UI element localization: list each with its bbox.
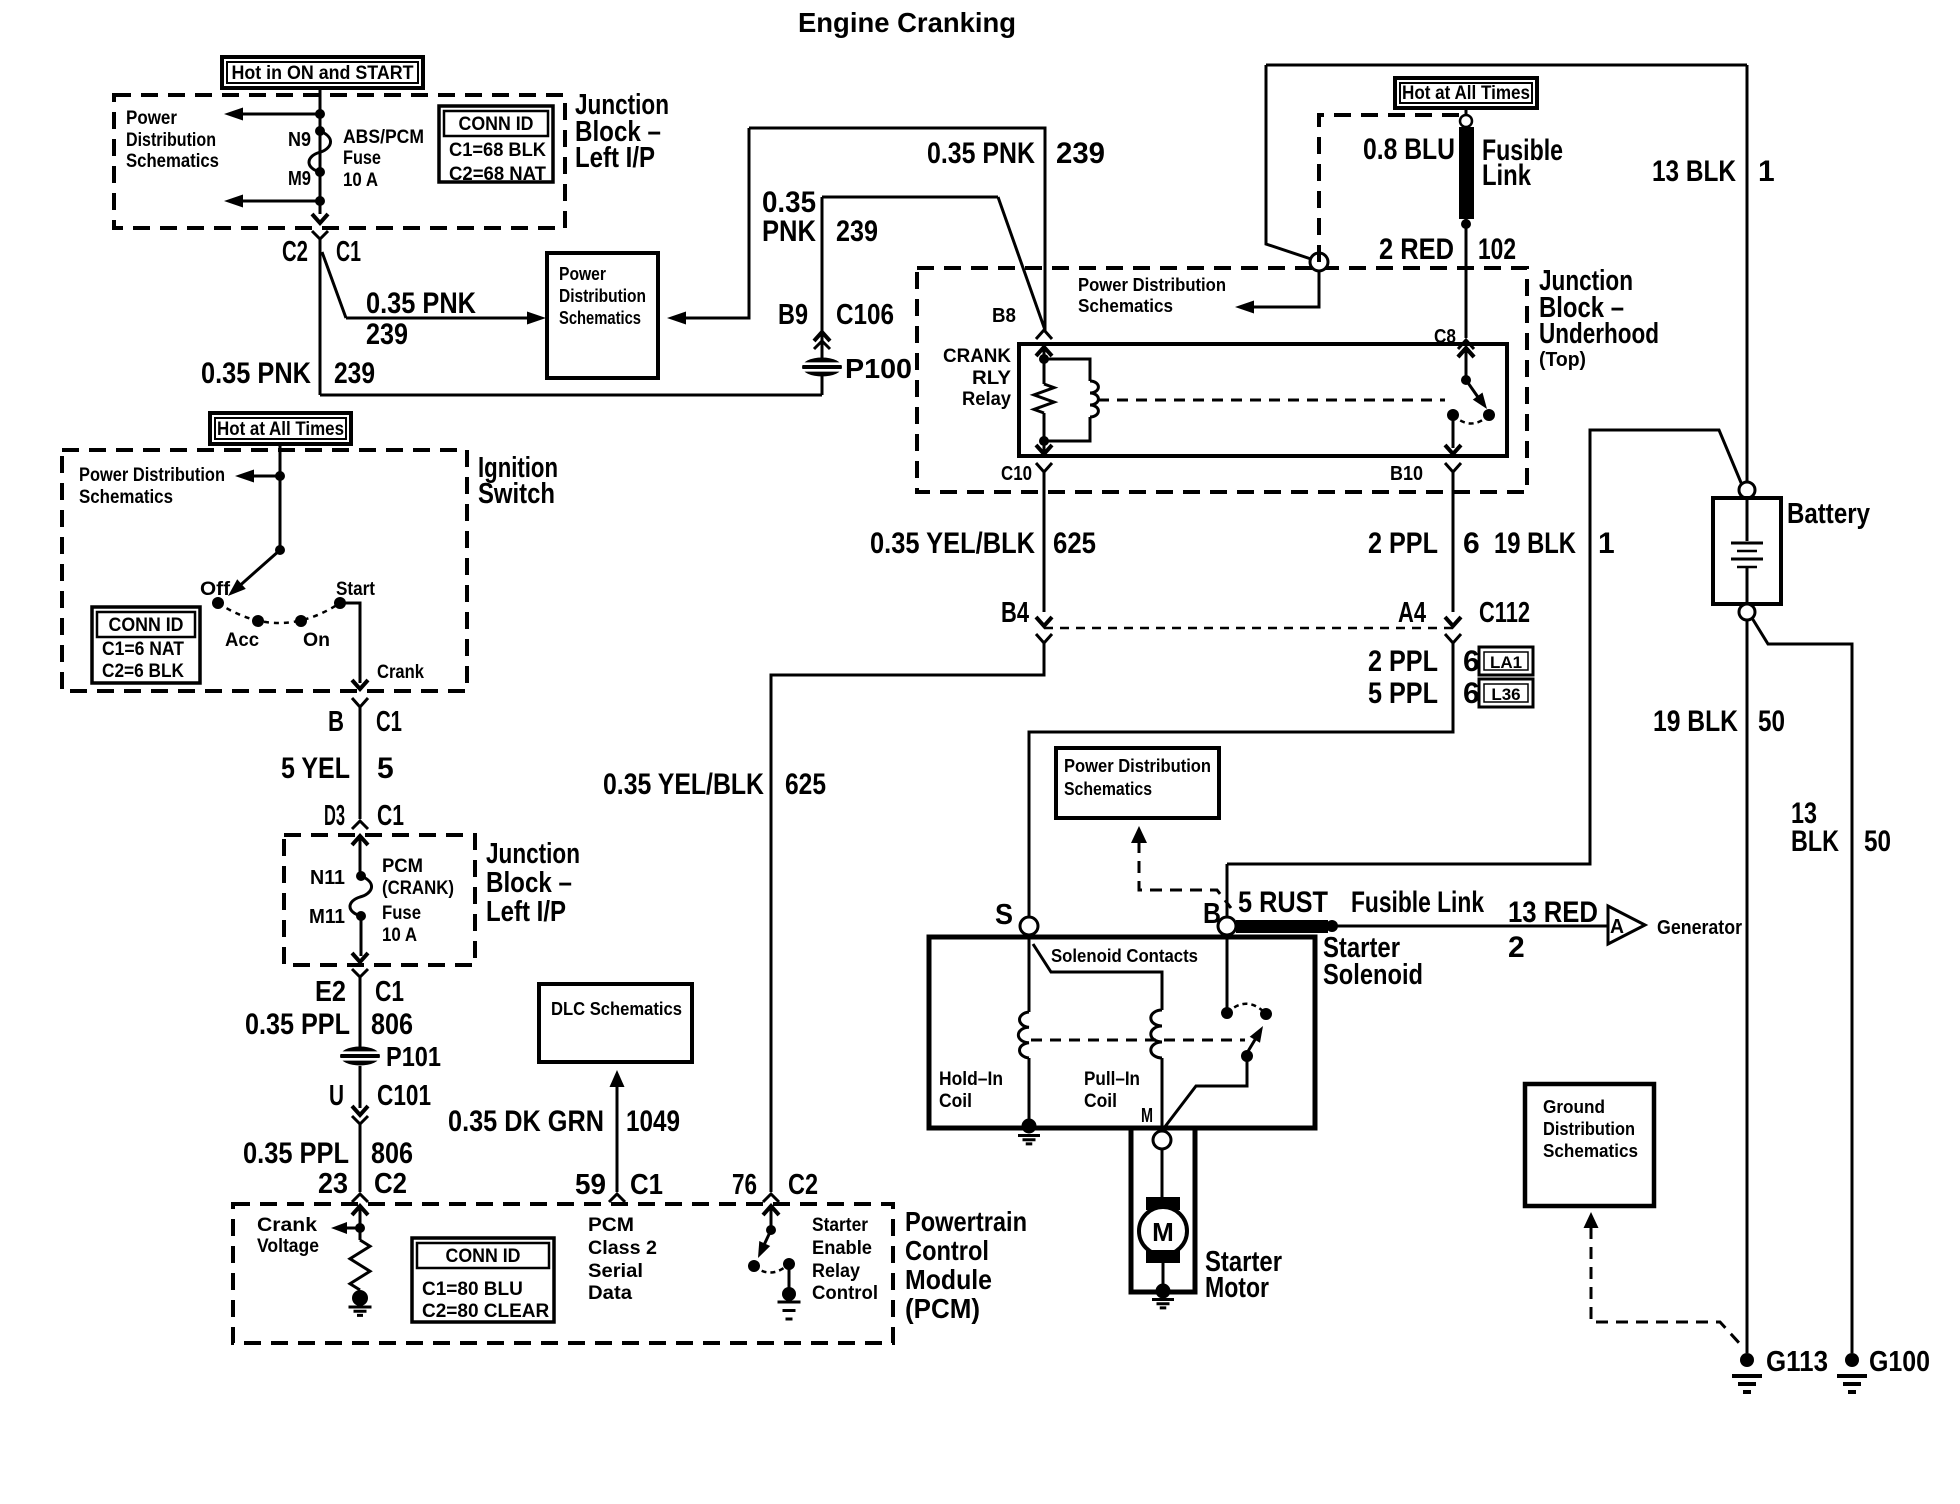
ground below solenoid (hold-in) bbox=[1018, 1136, 1040, 1144]
node fusible link bottom dot bbox=[1461, 219, 1471, 229]
fusible link 5 RUST bbox=[1236, 920, 1328, 933]
battery cell symbol bbox=[1731, 498, 1763, 604]
svg-text:Enable: Enable bbox=[812, 1238, 872, 1259]
wire B10 to A4 bbox=[1452, 472, 1455, 612]
contact dot On bbox=[295, 615, 307, 627]
svg-text:Class 2: Class 2 bbox=[588, 1238, 657, 1259]
svg-text:Starter: Starter bbox=[812, 1215, 869, 1236]
svg-text:625: 625 bbox=[785, 768, 826, 801]
junction block left I/P lower dashed box bbox=[284, 835, 475, 965]
ignition switch dashed box bbox=[62, 450, 467, 691]
wire diagonal into B8 bbox=[998, 197, 1045, 330]
wire 5 YEL 5 bbox=[359, 707, 362, 819]
svg-text:Distribution: Distribution bbox=[1543, 1118, 1635, 1139]
svg-text:C112: C112 bbox=[1479, 597, 1530, 629]
label Junction Block - Left I/P bbox=[575, 89, 669, 174]
svg-text:C2: C2 bbox=[788, 1169, 818, 1201]
dashed wire G113 to GDS bbox=[1591, 1227, 1741, 1345]
svg-text:19 BLK: 19 BLK bbox=[1494, 527, 1576, 560]
svg-text:59: 59 bbox=[575, 1169, 606, 1201]
arrowhead wire exits block bbox=[312, 214, 328, 223]
label Powertrain Control Module (PCM) bbox=[905, 1206, 1027, 1324]
svg-text:Crank: Crank bbox=[377, 662, 424, 683]
wire 13 RED 2 to generator bbox=[1337, 925, 1608, 928]
text Power Distribution Schematics (left IP) bbox=[126, 108, 219, 172]
label CRANK RLY Relay bbox=[943, 346, 1011, 410]
svg-text:P100: P100 bbox=[845, 353, 912, 384]
contact dot Start bbox=[334, 597, 346, 609]
svg-text:C1=68 BLK: C1=68 BLK bbox=[449, 140, 546, 161]
svg-text:1: 1 bbox=[1758, 155, 1775, 188]
relay box CRANK RLY bbox=[1019, 344, 1507, 456]
node PCM switch top dot bbox=[766, 1225, 776, 1235]
svg-text:10 A: 10 A bbox=[343, 170, 378, 191]
svg-text:13 RED: 13 RED bbox=[1508, 896, 1598, 929]
resistor relay internal bbox=[1034, 384, 1054, 413]
ignition wiper blade bbox=[228, 550, 280, 596]
svg-text:C10: C10 bbox=[1001, 463, 1032, 485]
wire motor to ground bbox=[1162, 1263, 1165, 1290]
svg-text:239: 239 bbox=[334, 357, 375, 390]
connector 23/C2 chevron bbox=[352, 1194, 368, 1202]
label 0.35 PPL 806 (upper) bbox=[245, 1008, 413, 1041]
wire branch left upper bbox=[242, 113, 320, 116]
svg-text:Relay: Relay bbox=[812, 1261, 860, 1282]
arrow to power distribution upper bbox=[224, 108, 243, 121]
svg-text:Schematics: Schematics bbox=[126, 151, 219, 172]
power tag Hot in ON and START bbox=[222, 57, 423, 88]
svg-text:Distribution: Distribution bbox=[126, 130, 216, 151]
wire battery neg to G113 bbox=[1746, 620, 1749, 1353]
conn id table C1=6 NAT C2=6 BLK bbox=[92, 607, 200, 683]
svg-text:2 PPL: 2 PPL bbox=[1368, 645, 1438, 678]
label Ignition Switch bbox=[478, 452, 558, 510]
dashed link relay actuation bbox=[1098, 399, 1445, 402]
svg-text:Control: Control bbox=[905, 1235, 989, 1266]
wire grommet to C101 bbox=[359, 1066, 362, 1108]
connector label 76 C2 bbox=[732, 1169, 818, 1201]
svg-text:B: B bbox=[1203, 898, 1221, 930]
svg-text:PCM: PCM bbox=[382, 856, 423, 877]
box Power Distribution Schematics #1 bbox=[547, 253, 658, 378]
svg-text:Schematics: Schematics bbox=[1078, 295, 1173, 316]
node relay coil top dot bbox=[1039, 354, 1049, 364]
text Power Distribution Schematics (underhood) bbox=[1078, 274, 1226, 316]
solenoid switch blade bbox=[1247, 1026, 1263, 1053]
node solenoid blade pivot dot bbox=[1241, 1050, 1253, 1062]
relay switch blade bbox=[1466, 380, 1487, 409]
svg-text:Underhood: Underhood bbox=[1539, 318, 1659, 350]
svg-text:10 A: 10 A bbox=[382, 925, 417, 946]
svg-text:ABS/PCM: ABS/PCM bbox=[343, 127, 424, 148]
svg-text:Data: Data bbox=[588, 1283, 632, 1304]
svg-text:DLC Schematics: DLC Schematics bbox=[551, 999, 682, 1019]
svg-text:C1=80 BLU: C1=80 BLU bbox=[422, 1279, 523, 1300]
svg-text:0.35 PNK: 0.35 PNK bbox=[201, 357, 311, 390]
arrowhead 76 enters PCM bbox=[763, 1206, 779, 1215]
ground below motor bbox=[1152, 1300, 1174, 1308]
connector C2/C1 chevron bbox=[312, 231, 328, 239]
svg-text:Crank: Crank bbox=[257, 1215, 317, 1236]
wire branch crank voltage bbox=[338, 1227, 360, 1230]
svg-text:Powertrain: Powertrain bbox=[905, 1206, 1027, 1237]
wire 13 BLK 1 down to battery bbox=[1746, 65, 1749, 482]
wire A4 to S terminal bbox=[1029, 643, 1453, 917]
connector B4 chevron bbox=[1036, 634, 1052, 643]
svg-text:625: 625 bbox=[1053, 527, 1096, 560]
conn id table C1=80 BLU C2=80 CLEAR bbox=[412, 1238, 554, 1322]
fuse F PCM (CRANK) 10A bbox=[350, 876, 372, 916]
motor M1 starter bbox=[1139, 1197, 1187, 1263]
terminal S ring bbox=[1020, 917, 1038, 935]
connector label 23 C2 bbox=[318, 1168, 407, 1200]
label 0.35 DK GRN 1049 bbox=[448, 1105, 680, 1138]
label 0.35 YEL/BLK 625 (lower) bbox=[603, 768, 826, 801]
connector label D3 C1 bbox=[324, 800, 404, 832]
coil Pull-In bbox=[1151, 1010, 1162, 1058]
svg-text:Hot at All Times: Hot at All Times bbox=[1402, 83, 1530, 104]
svg-text:P101: P101 bbox=[386, 1041, 441, 1072]
node PCM ground dot 2 bbox=[782, 1287, 796, 1301]
offsheet triangle A generator bbox=[1608, 906, 1645, 944]
svg-text:Power Distribution: Power Distribution bbox=[1078, 274, 1226, 295]
wire fuse out bbox=[360, 916, 363, 956]
dashed arc ignition positions bbox=[218, 603, 340, 623]
svg-text:6: 6 bbox=[1463, 645, 1480, 678]
svg-text:Coil: Coil bbox=[1084, 1091, 1117, 1112]
svg-text:LA1: LA1 bbox=[1490, 653, 1522, 672]
relay switch common C8 bbox=[1458, 348, 1474, 385]
label Starter Solenoid bbox=[1323, 932, 1423, 991]
arrowhead relay coil to C10 bbox=[1036, 445, 1052, 454]
node PCM contact left dot bbox=[748, 1260, 760, 1272]
svg-text:Engine Cranking: Engine Cranking bbox=[798, 7, 1016, 38]
svg-text:Fusible Link: Fusible Link bbox=[1351, 886, 1484, 919]
wire tag to fusible link bbox=[1465, 108, 1468, 116]
conn id table C1=68 BLK C2=68 NAT bbox=[439, 106, 553, 185]
wire feed from top right bbox=[1266, 65, 1311, 259]
wire bottom run y395 bbox=[320, 394, 822, 397]
svg-text:1049: 1049 bbox=[626, 1105, 680, 1138]
svg-text:Schematics: Schematics bbox=[1064, 778, 1152, 799]
svg-text:On: On bbox=[303, 630, 330, 651]
relay contact dots bbox=[1447, 409, 1495, 421]
svg-text:C1: C1 bbox=[630, 1169, 663, 1201]
text Crank Voltage bbox=[257, 1215, 319, 1257]
wire C10 to B4 bbox=[1043, 472, 1046, 612]
wire diagonal branch from C1 bbox=[322, 252, 346, 318]
svg-text:Distribution: Distribution bbox=[559, 285, 646, 306]
svg-text:C101: C101 bbox=[377, 1080, 431, 1112]
svg-text:RLY: RLY bbox=[972, 368, 1011, 389]
svg-text:C1: C1 bbox=[376, 706, 402, 738]
arrow crank voltage bbox=[331, 1222, 347, 1234]
svg-text:G100: G100 bbox=[1869, 1346, 1930, 1378]
arrowhead crank exits switch bbox=[352, 680, 368, 689]
connector label U C101 bbox=[329, 1080, 431, 1112]
connector label E2 C1 bbox=[315, 976, 404, 1008]
svg-text:Control: Control bbox=[812, 1283, 878, 1304]
svg-text:Voltage: Voltage bbox=[257, 1236, 319, 1257]
svg-text:102: 102 bbox=[1478, 233, 1516, 266]
svg-text:Pull–In: Pull–In bbox=[1084, 1069, 1140, 1090]
svg-text:239: 239 bbox=[836, 215, 878, 248]
text Power Distribution Schematics (ignition) bbox=[79, 465, 225, 508]
arrow to PDS text bbox=[1235, 301, 1254, 314]
node crank voltage dot bbox=[355, 1223, 365, 1233]
wire relay res bottom bbox=[1043, 413, 1046, 452]
svg-text:Block –: Block – bbox=[486, 867, 572, 899]
node ignition feed dot bbox=[275, 471, 285, 481]
node PCM ground dot 1 bbox=[352, 1290, 368, 1306]
arrowhead exits fuse block bbox=[352, 953, 368, 962]
terminal B ring bbox=[1218, 917, 1236, 935]
svg-text:Left I/P: Left I/P bbox=[575, 142, 655, 174]
label Hold-In Coil bbox=[939, 1069, 1003, 1112]
connector label A4 C112 bbox=[1398, 597, 1530, 629]
node solenoid contact right dot bbox=[1260, 1008, 1272, 1020]
arrow into DLC box bbox=[610, 1070, 625, 1087]
node junction dot top bbox=[315, 109, 325, 119]
fuse F ABS/PCM 10A bbox=[309, 131, 331, 172]
text PCM (CRANK) Fuse 10 A bbox=[382, 856, 454, 946]
wire branch to PDS bbox=[243, 475, 280, 478]
text PCM Class 2 Serial Data bbox=[588, 1215, 657, 1304]
wire M to motor bbox=[1161, 1149, 1164, 1199]
node wiper pivot dot bbox=[275, 545, 285, 555]
wire B4 to PCM 76 bbox=[771, 643, 1044, 1192]
svg-text:G113: G113 bbox=[1766, 1346, 1828, 1378]
svg-text:5 RUST: 5 RUST bbox=[1238, 886, 1328, 919]
box Power Distribution Schematics #3 bbox=[1056, 748, 1219, 818]
svg-text:Acc: Acc bbox=[225, 630, 259, 651]
wire mid run y197 bbox=[822, 196, 998, 199]
svg-text:5: 5 bbox=[377, 752, 394, 785]
node N11 dot bbox=[356, 871, 366, 881]
arrowhead B8 entering relay bbox=[1036, 347, 1052, 356]
svg-text:Solenoid Contacts: Solenoid Contacts bbox=[1051, 945, 1198, 966]
svg-text:CONN ID: CONN ID bbox=[459, 114, 534, 135]
wire ring to arrow bbox=[1243, 271, 1319, 307]
svg-text:C1: C1 bbox=[377, 800, 404, 832]
svg-text:0.35 PNK: 0.35 PNK bbox=[927, 137, 1035, 170]
label 0.35 PPL 806 (lower) bbox=[243, 1137, 413, 1170]
wire 2 RED 102 bbox=[1465, 219, 1468, 338]
svg-text:76: 76 bbox=[732, 1169, 757, 1201]
connector C10 chevron bbox=[1036, 463, 1052, 472]
grommet P100 bbox=[802, 358, 842, 377]
svg-text:C2=80 CLEAR: C2=80 CLEAR bbox=[422, 1301, 550, 1322]
arrowhead entering fuse block bbox=[352, 836, 368, 845]
svg-text:C2=68 NAT: C2=68 NAT bbox=[449, 164, 546, 185]
svg-text:B4: B4 bbox=[1001, 597, 1029, 629]
power tag Hot at All Times (right) bbox=[1395, 78, 1537, 108]
wire Start contact down bbox=[340, 603, 360, 683]
wire x822 up from y395 bbox=[821, 197, 824, 395]
svg-text:BLK: BLK bbox=[1791, 825, 1839, 858]
arrowhead relay to B10 bbox=[1445, 445, 1461, 454]
svg-text:C1=6 NAT: C1=6 NAT bbox=[102, 639, 184, 660]
wire bus from Hot in ON tag bbox=[319, 88, 322, 214]
node ring terminal on block bbox=[1310, 253, 1328, 271]
svg-text:PCM: PCM bbox=[588, 1215, 634, 1236]
node relay coil bottom dot bbox=[1039, 436, 1049, 446]
wire into fuse bbox=[359, 836, 362, 876]
svg-text:S: S bbox=[995, 899, 1013, 931]
svg-text:B10: B10 bbox=[1390, 463, 1423, 485]
connector 76/C2 chevron bbox=[763, 1194, 779, 1202]
wire drop x749 to arrow bbox=[676, 128, 749, 318]
wire blade to M bbox=[1164, 1056, 1247, 1128]
wire tag into switch bbox=[279, 444, 282, 550]
svg-text:C2: C2 bbox=[374, 1168, 407, 1200]
dashed feed box fusible link bbox=[1319, 115, 1459, 268]
wire 0.35 DK GRN 1049 bbox=[616, 1085, 619, 1192]
arrow into PDS box bbox=[527, 312, 546, 325]
svg-text:239: 239 bbox=[366, 318, 408, 351]
svg-text:M: M bbox=[1152, 1217, 1174, 1247]
svg-text:D3: D3 bbox=[324, 800, 345, 832]
node M9 dot bbox=[315, 167, 325, 177]
svg-text:Battery: Battery bbox=[1787, 498, 1870, 530]
dashed link solenoid plunger bbox=[1031, 1039, 1245, 1042]
svg-text:0.35 YEL/BLK: 0.35 YEL/BLK bbox=[870, 527, 1035, 560]
arrow dashed to GDS box bbox=[1584, 1212, 1599, 1228]
svg-text:Schematics: Schematics bbox=[559, 307, 641, 328]
svg-text:CRANK: CRANK bbox=[943, 346, 1011, 367]
wire into crank voltage bbox=[359, 1206, 362, 1240]
svg-text:806: 806 bbox=[371, 1008, 413, 1041]
svg-text:(CRANK): (CRANK) bbox=[382, 878, 454, 899]
label Junction Block - Underhood (Top) bbox=[1539, 265, 1659, 371]
arrow to power distribution lower bbox=[224, 195, 243, 208]
svg-text:E2: E2 bbox=[315, 976, 346, 1008]
starter solenoid box bbox=[929, 937, 1315, 1128]
svg-text:Start: Start bbox=[336, 579, 376, 600]
svg-text:M: M bbox=[1141, 1105, 1153, 1127]
svg-text:C106: C106 bbox=[836, 299, 894, 331]
connector B/C1 chevron bbox=[352, 698, 368, 707]
svg-text:Left I/P: Left I/P bbox=[486, 896, 566, 928]
svg-text:19 BLK: 19 BLK bbox=[1653, 705, 1738, 738]
svg-text:23: 23 bbox=[318, 1168, 348, 1200]
svg-text:Power: Power bbox=[559, 263, 606, 284]
battery box bbox=[1713, 498, 1781, 604]
arrow dashed to PDS box bbox=[1131, 826, 1147, 843]
node hold-in ground dot bbox=[1022, 1119, 1037, 1134]
svg-text:Schematics: Schematics bbox=[1543, 1140, 1638, 1161]
svg-text:Generator: Generator bbox=[1657, 917, 1742, 939]
ground G100 bbox=[1837, 1353, 1867, 1392]
svg-text:B8: B8 bbox=[992, 305, 1016, 327]
contact dot Acc bbox=[252, 615, 264, 627]
connector B9/C106 arrow+chevron bbox=[814, 332, 830, 349]
wire B to contact bbox=[1226, 935, 1229, 1013]
wire 76 to switch bbox=[770, 1206, 773, 1230]
contact dot Off bbox=[212, 597, 224, 609]
svg-text:0.35 YEL/BLK: 0.35 YEL/BLK bbox=[603, 768, 764, 801]
svg-text:Schematics: Schematics bbox=[79, 487, 173, 508]
coil Hold-In bbox=[1018, 1012, 1029, 1058]
arrowhead A4 bbox=[1445, 617, 1461, 626]
text Starter Enable Relay Control bbox=[812, 1215, 878, 1304]
svg-text:5 YEL: 5 YEL bbox=[281, 752, 350, 785]
connector label 59 C1 bbox=[575, 1169, 663, 1201]
svg-text:B: B bbox=[328, 706, 344, 738]
label 19 BLK 50 bbox=[1653, 705, 1785, 738]
svg-text:M9: M9 bbox=[288, 168, 311, 190]
svg-text:M11: M11 bbox=[309, 906, 345, 928]
svg-text:Junction: Junction bbox=[486, 838, 580, 870]
label 0.35 PNK 239 (left) bbox=[201, 357, 375, 390]
svg-text:C2=6 BLK: C2=6 BLK bbox=[102, 661, 184, 682]
connector E2/C1 chevron bbox=[352, 969, 368, 977]
node PCM contact right dot bbox=[783, 1258, 795, 1270]
ground G113 bbox=[1732, 1353, 1762, 1392]
node battery negative ring bbox=[1739, 604, 1755, 620]
wire hold-in to ground bbox=[1028, 1058, 1031, 1124]
svg-text:Off: Off bbox=[200, 579, 231, 600]
svg-text:L36: L36 bbox=[1491, 685, 1520, 704]
svg-text:5 PPL: 5 PPL bbox=[1368, 677, 1438, 710]
dashed arc solenoid contacts bbox=[1227, 1004, 1266, 1014]
box DLC Schematics bbox=[539, 984, 692, 1062]
connector label C2 C1 bbox=[282, 236, 361, 268]
svg-text:Switch: Switch bbox=[478, 478, 555, 510]
fusible link element bbox=[1459, 127, 1474, 219]
arrowhead 23 enters PCM bbox=[352, 1206, 368, 1215]
dashed wire from B to PDS bbox=[1139, 841, 1231, 908]
wire to PDS box left bbox=[346, 317, 538, 320]
text ABS/PCM Fuse 10 A bbox=[343, 127, 424, 191]
svg-text:Hot at All Times: Hot at All Times bbox=[217, 419, 344, 440]
svg-text:(Top): (Top) bbox=[1539, 349, 1586, 371]
node motor ground dot bbox=[1156, 1284, 1171, 1299]
svg-text:Relay: Relay bbox=[962, 389, 1011, 410]
label 13 RED 2 bbox=[1508, 896, 1598, 964]
wire relay coil top bbox=[1043, 347, 1046, 384]
node battery positive ring bbox=[1739, 482, 1755, 498]
svg-text:Solenoid: Solenoid bbox=[1323, 959, 1423, 991]
arrowhead C8 entering relay bbox=[1458, 348, 1474, 357]
svg-text:N11: N11 bbox=[310, 867, 345, 889]
junction block - underhood dashed box bbox=[917, 268, 1527, 492]
grommet P101 bbox=[340, 1047, 380, 1066]
svg-text:50: 50 bbox=[1864, 825, 1891, 858]
label 0.35 PNK 239 (mid) bbox=[762, 186, 878, 248]
svg-text:50: 50 bbox=[1758, 705, 1785, 738]
coil relay winding branch bbox=[1044, 359, 1098, 441]
dashed arc PCM contacts bbox=[754, 1264, 789, 1273]
svg-text:Power Distribution: Power Distribution bbox=[1064, 755, 1211, 776]
wire top run y128 bbox=[749, 128, 1045, 332]
dashed connector line C112 bbox=[1044, 627, 1453, 630]
wire S to hold-in coil bbox=[1028, 935, 1031, 1012]
svg-text:Fuse: Fuse bbox=[343, 148, 381, 169]
label 2 PPL 6 LA1 bbox=[1368, 645, 1480, 678]
svg-text:Power: Power bbox=[126, 108, 178, 129]
svg-text:Link: Link bbox=[1482, 159, 1531, 192]
svg-text:C1: C1 bbox=[336, 236, 361, 268]
connector U/C101 arrow+chevron bbox=[352, 1106, 368, 1124]
svg-text:0.35 PNK: 0.35 PNK bbox=[366, 287, 476, 320]
svg-text:B9: B9 bbox=[778, 299, 808, 331]
wire S branch to pull-in bbox=[1033, 944, 1162, 1010]
svg-text:CONN ID: CONN ID bbox=[446, 1246, 521, 1267]
svg-text:Ground: Ground bbox=[1543, 1096, 1605, 1117]
svg-text:CONN ID: CONN ID bbox=[109, 615, 184, 636]
arrow to PDS (ignition) bbox=[235, 470, 254, 483]
